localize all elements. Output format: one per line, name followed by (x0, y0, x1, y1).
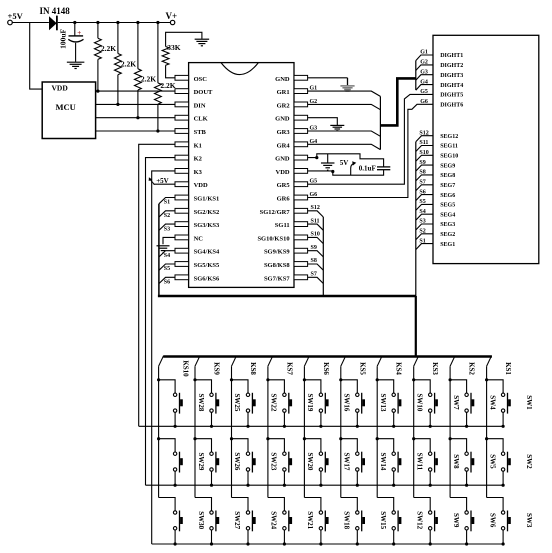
wire GND1 (right) (308, 77, 348, 79)
pin SG1/KS1 (left 10) (175, 195, 189, 200)
pin S3 of DS1 (416, 224, 433, 230)
pin K2 (left 7) (175, 155, 189, 160)
svg-text:GND: GND (275, 156, 290, 163)
svg-text:SEG9: SEG9 (440, 163, 455, 169)
resistor R2 2.2K (116, 21, 119, 24)
pin SG10/KS10 (right 13) (294, 235, 308, 240)
svg-text:GR2: GR2 (277, 102, 290, 109)
svg-text:S1: S1 (164, 200, 170, 206)
pin DOUT (left 2) (175, 89, 189, 94)
pin GR3 (right 5) (294, 129, 308, 134)
svg-text:CLK: CLK (194, 116, 208, 123)
pin S10 of DS1 (416, 155, 433, 161)
pin S8 of DS1 (416, 175, 433, 181)
svg-text:SG5/KS5: SG5/KS5 (194, 262, 220, 269)
svg-text:S2: S2 (164, 213, 170, 219)
svg-text:SW16: SW16 (343, 394, 351, 412)
svg-text:G5: G5 (310, 179, 318, 185)
power flag 5V (351, 164, 354, 176)
switch SW10 (376, 378, 379, 381)
wire CLK (96, 117, 175, 119)
svg-text:SEG4: SEG4 (440, 212, 455, 218)
svg-text:NC: NC (194, 235, 204, 242)
switch SW28 (157, 378, 160, 381)
svg-text:SW9: SW9 (452, 513, 460, 528)
node G2 (308, 104, 381, 109)
pin GND (right 4) (294, 115, 308, 120)
wire key row K1 (139, 425, 504, 427)
svg-text:DIGHT6: DIGHT6 (440, 103, 463, 109)
capacitor C2 0.1uF (377, 166, 390, 168)
svg-text:+5V: +5V (8, 11, 24, 21)
svg-text:SW28: SW28 (197, 394, 205, 412)
node G1 (308, 91, 381, 96)
pin G4 of DS1 (416, 85, 433, 91)
svg-text:GR6: GR6 (277, 196, 291, 203)
pin DIN (left 3) (175, 102, 189, 107)
bus feed to display digits (thick) (380, 78, 415, 125)
svg-text:+5V: +5V (156, 177, 169, 185)
pin SG5/KS5 (left 15) (175, 262, 189, 267)
svg-text:KS5: KS5 (358, 362, 366, 375)
switch SW24 (232, 498, 249, 511)
switch SW13 (339, 378, 342, 381)
wire K2 (146, 158, 176, 486)
svg-text:S11: S11 (311, 218, 320, 224)
svg-text:SW17: SW17 (343, 452, 351, 470)
wire DIN (96, 103, 175, 105)
svg-text:G1: G1 (310, 86, 318, 92)
svg-text:S1: S1 (419, 238, 425, 244)
switch SW29 (157, 437, 160, 440)
svg-text:GND: GND (275, 116, 290, 123)
svg-text:DOUT: DOUT (194, 89, 213, 96)
svg-text:GR5: GR5 (277, 182, 291, 189)
svg-text:0.1uF: 0.1uF (359, 164, 376, 172)
svg-text:SEG6: SEG6 (440, 193, 455, 199)
switch SW19 (266, 378, 269, 381)
svg-text:S4: S4 (164, 253, 170, 259)
switch SW30 (159, 498, 176, 511)
svg-text:GND: GND (275, 76, 290, 83)
pin SG7/KS7 (right 16) (294, 275, 308, 280)
pin SG8/KS8 (right 15) (294, 262, 308, 267)
svg-text:G1: G1 (420, 50, 428, 56)
node KS1 (487, 356, 492, 366)
bus vertical to key matrix (415, 296, 417, 357)
svg-text:KS6: KS6 (322, 362, 330, 375)
pin VDD (right 8) (294, 169, 308, 174)
bus G (display side) (415, 61, 417, 90)
svg-text:VDD: VDD (52, 84, 69, 93)
svg-text:IN 4148: IN 4148 (40, 6, 71, 16)
svg-text:SW27: SW27 (233, 511, 241, 529)
svg-text:SW10: SW10 (415, 394, 423, 412)
svg-text:SW14: SW14 (379, 452, 387, 470)
pin SG3/KS3 (left 12) (175, 222, 189, 227)
resistor R4 2.2K (156, 21, 159, 24)
power flag +5V at U1 VDD (154, 183, 176, 185)
svg-text:33K: 33K (167, 43, 181, 52)
svg-text:G4: G4 (420, 79, 428, 85)
pin S9 of DS1 (416, 165, 433, 171)
svg-text:S8: S8 (311, 258, 317, 264)
svg-text:S9: S9 (311, 245, 317, 251)
svg-text:SG7/KS7: SG7/KS7 (264, 275, 290, 282)
switch SW6 (450, 498, 467, 511)
node S8 (308, 264, 324, 270)
svg-text:G3: G3 (420, 69, 428, 75)
svg-text:KS2: KS2 (468, 362, 476, 375)
ground C1 (67, 61, 85, 63)
svg-text:SW29: SW29 (197, 452, 205, 470)
node KS4 (377, 356, 382, 366)
svg-text:DIN: DIN (194, 102, 206, 109)
resistor R3 2.2K (136, 21, 139, 24)
svg-text:SG4/KS4: SG4/KS4 (194, 249, 220, 256)
node KS3 (414, 356, 419, 366)
switch SW9 (414, 498, 431, 511)
svg-text:DIGHT3: DIGHT3 (440, 73, 463, 79)
resistor R1 2.2K (96, 21, 99, 24)
node KS8 (232, 356, 237, 366)
svg-text:S2: S2 (419, 229, 425, 235)
power terminal V+ (170, 20, 174, 24)
svg-text:G3: G3 (310, 126, 318, 132)
switch SW21 (268, 498, 285, 511)
svg-text:S8: S8 (419, 170, 425, 176)
bus S7-S12 (right of U1) (322, 217, 324, 296)
svg-text:SW26: SW26 (233, 452, 241, 470)
switch SW26 (193, 437, 196, 440)
svg-text:SG12/GR7: SG12/GR7 (260, 209, 291, 216)
bus S1-S6 (left) (158, 204, 160, 296)
switch SW17 (303, 437, 306, 440)
pin NC (left 13) (175, 235, 189, 240)
svg-text:G4: G4 (310, 139, 318, 145)
svg-text:SW13: SW13 (379, 394, 387, 412)
IC U1 (189, 63, 294, 288)
svg-text:K3: K3 (194, 169, 203, 176)
svg-text:OSC: OSC (194, 76, 208, 83)
svg-text:SW8: SW8 (452, 454, 460, 469)
ground R5 (195, 38, 210, 40)
svg-text:KS8: KS8 (249, 362, 257, 375)
pin S7 of DS1 (416, 185, 433, 191)
svg-text:SW24: SW24 (270, 511, 278, 529)
svg-text:SG10/KS10: SG10/KS10 (257, 235, 289, 242)
wire key row K2 (146, 484, 504, 486)
svg-text:2.2K: 2.2K (160, 81, 175, 90)
switch SW25 (193, 378, 196, 381)
node G4 (308, 144, 381, 149)
pin S4 of DS1 (416, 214, 433, 220)
svg-text:SW25: SW25 (233, 394, 241, 412)
node S2 (159, 211, 175, 217)
svg-text:V+: V+ (166, 11, 178, 21)
wire K3 (152, 171, 175, 544)
svg-text:S5: S5 (419, 199, 425, 205)
svg-text:VDD: VDD (276, 169, 290, 176)
node S4 (159, 251, 175, 257)
wire key row K3 (152, 543, 504, 545)
ground GND2 (308, 118, 338, 125)
pin G2 of DS1 (416, 65, 433, 71)
svg-text:2.2K: 2.2K (101, 44, 116, 53)
svg-text:100uF: 100uF (59, 28, 68, 48)
svg-text:K1: K1 (194, 142, 202, 149)
pin S5 of DS1 (416, 204, 433, 210)
svg-text:S3: S3 (164, 226, 170, 232)
node S10 (308, 237, 324, 243)
node S9 (308, 251, 324, 257)
svg-text:G6: G6 (310, 192, 318, 198)
svg-text:S4: S4 (419, 209, 425, 215)
svg-text:SEG2: SEG2 (440, 232, 455, 238)
svg-text:SW1: SW1 (525, 395, 533, 410)
svg-text:SEG3: SEG3 (440, 222, 455, 228)
switch SW15 (341, 498, 358, 511)
pin S11 of DS1 (416, 146, 433, 152)
pin GR4 (right 6) (294, 142, 308, 147)
pin S12 of DS1 (416, 136, 433, 142)
svg-text:S11: S11 (419, 140, 428, 146)
node S7 (308, 277, 324, 283)
display block DS1 (433, 35, 539, 263)
node S5 (159, 264, 175, 270)
svg-text:DIGHT5: DIGHT5 (440, 93, 463, 99)
bus segment thick under U1 (158, 295, 416, 298)
svg-text:SW6: SW6 (488, 513, 496, 528)
svg-text:G2: G2 (420, 60, 428, 66)
svg-text:S6: S6 (164, 280, 170, 286)
pin K1 (left 6) (175, 142, 189, 147)
svg-text:SEG10: SEG10 (440, 154, 458, 160)
svg-text:GR3: GR3 (277, 129, 291, 136)
svg-text:SW23: SW23 (270, 452, 278, 470)
power terminal +5V (8, 20, 13, 25)
pin GR2 (right 3) (294, 102, 308, 107)
switch SW18 (304, 498, 321, 511)
resistor R5 33K (166, 32, 202, 46)
switch SW22 (230, 378, 233, 381)
svg-text:KS10: KS10 (182, 360, 190, 377)
svg-text:KS9: KS9 (213, 362, 221, 375)
pin GR6 (right 10) (294, 195, 308, 200)
pin S6 of DS1 (416, 195, 433, 201)
svg-text:KS1: KS1 (504, 362, 512, 375)
capacitor C1 100uF (73, 21, 76, 24)
bus G1-G4 (right of U1) (379, 96, 381, 149)
svg-text:SEG7: SEG7 (440, 183, 455, 189)
svg-text:SW15: SW15 (379, 511, 387, 529)
switch SW12 (377, 498, 394, 511)
pin GND (right 7) (294, 155, 308, 160)
diode D1 IN 4148 (49, 16, 57, 30)
svg-text:S12: S12 (311, 205, 320, 211)
wire OSC (166, 65, 175, 78)
ground GND3 (327, 154, 329, 163)
wire MCU supply (30, 23, 43, 90)
wire DOUT (96, 90, 175, 92)
wire G5 (308, 94, 433, 184)
svg-text:SW5: SW5 (488, 454, 496, 469)
svg-text:SG3/KS3: SG3/KS3 (194, 222, 220, 229)
svg-text:SG2/KS2: SG2/KS2 (194, 209, 220, 216)
node S12 (308, 211, 324, 217)
svg-text:SW20: SW20 (306, 452, 314, 470)
node KS6 (304, 356, 309, 366)
svg-text:S3: S3 (419, 219, 425, 225)
svg-text:S12: S12 (419, 130, 428, 136)
svg-text:VDD: VDD (194, 182, 208, 189)
svg-text:5V: 5V (340, 159, 349, 167)
svg-text:DIGHT1: DIGHT1 (440, 53, 463, 59)
pin OSC (left 1) (175, 75, 189, 80)
svg-text:SW12: SW12 (415, 511, 423, 529)
pin S2 of DS1 (416, 234, 433, 240)
svg-text:SEG12: SEG12 (440, 134, 458, 140)
svg-text:SG1/KS1: SG1/KS1 (194, 196, 220, 203)
svg-text:SW19: SW19 (306, 394, 314, 412)
svg-text:SW11: SW11 (415, 453, 423, 471)
svg-text:SEG11: SEG11 (440, 144, 458, 150)
svg-text:SW18: SW18 (343, 511, 351, 529)
MCU U2 (42, 82, 95, 139)
svg-text:KS3: KS3 (431, 362, 439, 375)
switch SW7 (412, 378, 415, 381)
pin GR1 (right 2) (294, 89, 308, 94)
wire K1 (139, 144, 175, 426)
pin VDD (left 9) (175, 182, 189, 187)
switch SW1 (485, 378, 488, 381)
pin SG11 (right 12) (294, 222, 308, 227)
pin K3 (left 8) (175, 169, 189, 174)
switch SW27 (195, 498, 212, 511)
key matrix bus (top, thick) (163, 355, 492, 358)
wire G6 (308, 104, 433, 197)
svg-text:SW2: SW2 (525, 454, 533, 469)
switch SW23 (230, 437, 233, 440)
ground GND1 (347, 78, 349, 85)
pin S1 of DS1 (416, 244, 433, 250)
node KS7 (268, 356, 273, 366)
svg-text:SW4: SW4 (488, 395, 496, 410)
svg-text:S7: S7 (419, 180, 425, 186)
svg-text:G6: G6 (420, 99, 428, 105)
svg-text:SG8/KS8: SG8/KS8 (264, 262, 290, 269)
pin CLK (left 4) (175, 115, 189, 120)
svg-text:2.2K: 2.2K (121, 59, 136, 68)
node S1 (159, 198, 175, 204)
svg-text:SEG5: SEG5 (440, 203, 455, 209)
pin SG6/KS6 (left 16) (175, 275, 189, 280)
svg-text:S5: S5 (164, 266, 170, 272)
switch SW14 (339, 437, 342, 440)
pin G1 of DS1 (416, 55, 433, 61)
svg-text:2.2K: 2.2K (141, 75, 156, 84)
svg-text:DIGHT4: DIGHT4 (440, 83, 463, 89)
wire VDD bypass (308, 170, 384, 176)
svg-text:SW7: SW7 (452, 395, 460, 410)
switch SW5 (449, 437, 452, 440)
svg-text:MCU: MCU (56, 102, 76, 112)
svg-text:G2: G2 (310, 99, 318, 105)
switch SW16 (303, 378, 306, 381)
node S6 (159, 277, 175, 283)
svg-text:SG6/KS6: SG6/KS6 (194, 275, 220, 282)
node S3 (159, 224, 175, 230)
svg-text:S6: S6 (419, 189, 425, 195)
svg-text:S7: S7 (311, 272, 317, 278)
svg-text:S10: S10 (419, 150, 428, 156)
pin GND (right 1) (294, 75, 308, 80)
svg-text:KS4: KS4 (395, 362, 403, 375)
svg-text:GR4: GR4 (277, 142, 291, 149)
pin GR5 (right 9) (294, 182, 308, 187)
pin SG12/GR7 (right 11) (294, 208, 308, 213)
switch SW11 (376, 437, 379, 440)
svg-text:KS7: KS7 (285, 362, 293, 375)
node G3 (308, 131, 381, 136)
node KS10 (159, 356, 164, 366)
wire +5V rail (12, 22, 49, 24)
pin STB (left 5) (175, 129, 189, 134)
ground NC (163, 237, 175, 244)
node KS9 (195, 356, 200, 366)
switch SW2 (485, 437, 488, 440)
switch SW8 (412, 437, 415, 440)
svg-text:SW3: SW3 (525, 513, 533, 528)
svg-text:DIGHT2: DIGHT2 (440, 63, 463, 69)
svg-text:S10: S10 (311, 232, 320, 238)
switch SW4 (449, 378, 452, 381)
bus S (display side) (415, 142, 417, 296)
pin SG4/KS4 (left 14) (175, 248, 189, 253)
svg-text:SG9/KS9: SG9/KS9 (264, 249, 290, 256)
node KS2 (450, 356, 455, 366)
svg-text:G5: G5 (420, 89, 428, 95)
svg-text:K2: K2 (194, 156, 202, 163)
svg-text:GR1: GR1 (277, 89, 290, 96)
svg-text:SG11: SG11 (275, 222, 290, 229)
wire STB (96, 130, 175, 132)
svg-text:S9: S9 (419, 160, 425, 166)
pin SG2/KS2 (left 11) (175, 208, 189, 213)
svg-text:STB: STB (194, 129, 207, 136)
svg-text:SEG8: SEG8 (440, 173, 455, 179)
switch SW20 (266, 437, 269, 440)
svg-text:SW21: SW21 (306, 511, 314, 529)
svg-text:SEG1: SEG1 (440, 242, 455, 248)
node KS5 (341, 356, 346, 366)
svg-text:SW30: SW30 (197, 511, 205, 529)
svg-text:SW22: SW22 (270, 394, 278, 412)
node S11 (308, 224, 324, 230)
pin SG9/KS9 (right 14) (294, 248, 308, 253)
wire GND3 to bypass loop (308, 154, 384, 167)
pin G3 of DS1 (416, 75, 433, 81)
switch SW3 (487, 498, 504, 511)
svg-text:+: + (77, 29, 81, 37)
